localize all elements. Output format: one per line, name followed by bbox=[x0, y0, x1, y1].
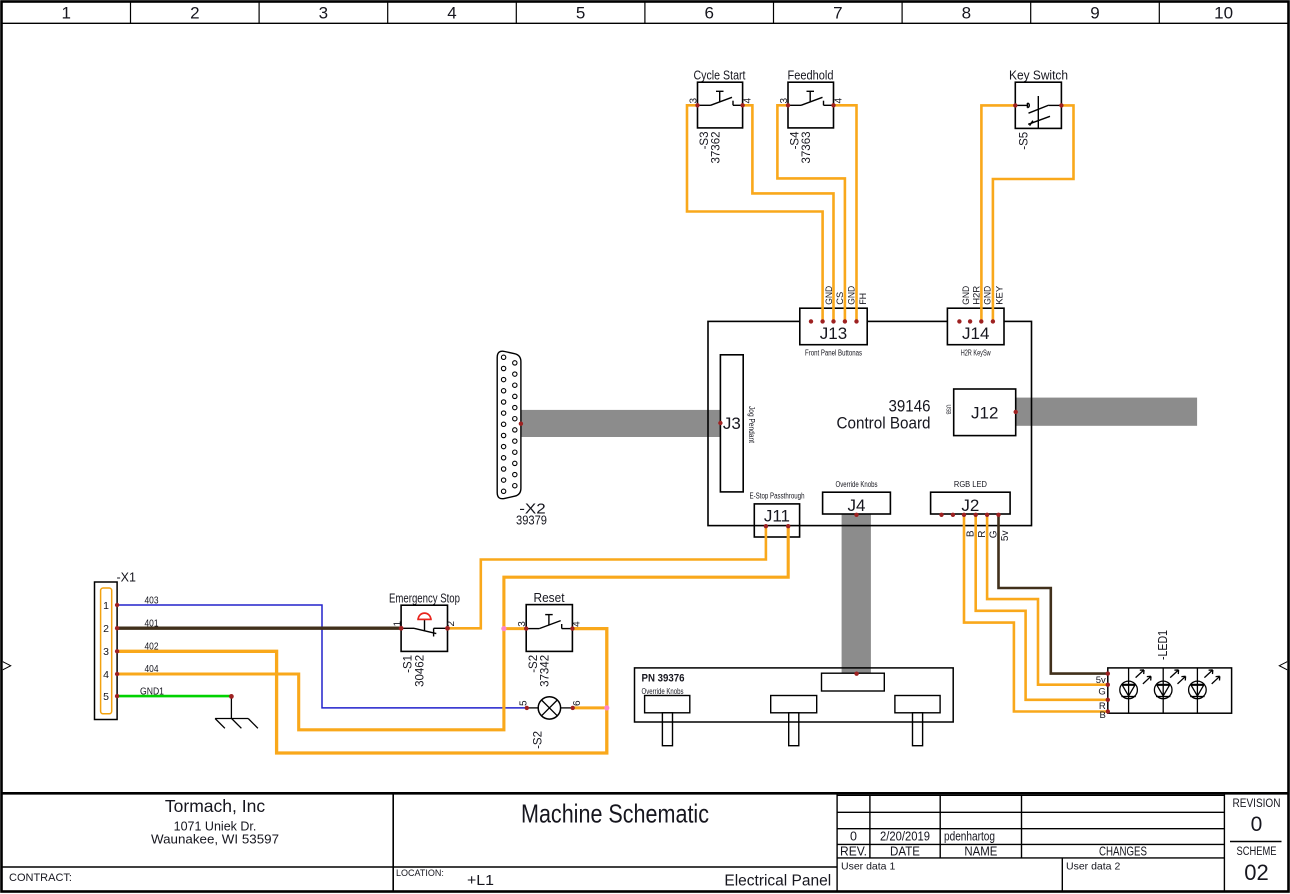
svg-text:3: 3 bbox=[688, 98, 699, 104]
svg-text:R: R bbox=[977, 531, 988, 538]
svg-text:J12: J12 bbox=[971, 404, 998, 423]
svg-text:J13: J13 bbox=[820, 324, 847, 343]
pushbutton S4 Feedhold bbox=[779, 69, 845, 164]
svg-text:J11: J11 bbox=[764, 507, 790, 526]
svg-text:J3: J3 bbox=[723, 414, 741, 433]
svg-text:B: B bbox=[1099, 710, 1105, 721]
wire J2 5v to LED 5v bbox=[999, 515, 1108, 674]
knob 2 stem bbox=[789, 713, 799, 746]
svg-text:0: 0 bbox=[1251, 813, 1263, 836]
wire J2 R to LED R bbox=[976, 515, 1108, 700]
wire S3 pin3 to J13 GND bbox=[687, 105, 823, 321]
svg-text:6: 6 bbox=[572, 700, 583, 706]
lamp S2 bbox=[518, 697, 583, 749]
connector J4 bbox=[823, 492, 891, 514]
svg-text:Cycle Start: Cycle Start bbox=[694, 69, 746, 83]
svg-text:1: 1 bbox=[103, 600, 109, 612]
ribbon cable X2 to J3 bbox=[521, 410, 720, 437]
svg-text:4: 4 bbox=[743, 98, 754, 104]
connector J12 bbox=[954, 389, 1016, 436]
svg-text:4: 4 bbox=[572, 621, 583, 627]
LED assembly -LED1 box bbox=[1108, 668, 1232, 713]
svg-text:-LED1: -LED1 bbox=[1156, 630, 1170, 660]
svg-text:3: 3 bbox=[319, 4, 328, 23]
svg-text:Jog Pendant: Jog Pendant bbox=[747, 406, 756, 444]
connector J11 bbox=[754, 504, 799, 537]
svg-text:SCHEME: SCHEME bbox=[1237, 846, 1277, 858]
svg-text:FH: FH bbox=[858, 293, 869, 305]
svg-text:pdenhartog: pdenhartog bbox=[944, 830, 995, 844]
svg-text:J2: J2 bbox=[961, 496, 979, 515]
svg-text:37342: 37342 bbox=[540, 655, 552, 687]
svg-text:Feedhold: Feedhold bbox=[788, 69, 834, 83]
svg-text:4: 4 bbox=[447, 4, 456, 23]
ribbon cable J12 to right bbox=[1016, 398, 1197, 426]
chassis ground symbol bbox=[215, 696, 258, 728]
DB25 pin holes right column bbox=[513, 361, 517, 488]
wire J2 G to LED G bbox=[987, 515, 1108, 685]
svg-text:37362: 37362 bbox=[711, 132, 723, 164]
wire S5 pin to J14 KEY bbox=[993, 105, 1074, 321]
svg-text:3: 3 bbox=[517, 621, 528, 627]
svg-text:J14: J14 bbox=[962, 324, 989, 343]
svg-text:2: 2 bbox=[446, 621, 457, 627]
revision table lines bbox=[837, 794, 1281, 891]
wire S4 pin4 to J13 FH bbox=[834, 105, 857, 321]
wire lamp pin6 stub to 402 net bbox=[573, 706, 607, 709]
svg-text:Waunakee, WI 53597: Waunakee, WI 53597 bbox=[151, 833, 279, 847]
left edge center arrow bbox=[3, 662, 11, 670]
svg-text:-S4: -S4 bbox=[790, 131, 802, 150]
svg-text:-S1: -S1 bbox=[403, 655, 415, 673]
svg-text:User data 2: User data 2 bbox=[1066, 861, 1120, 873]
pushbutton S2 Reset bbox=[517, 591, 583, 687]
LED D1 bbox=[1120, 668, 1151, 713]
title block contract row line bbox=[2, 866, 837, 868]
junction dot pink lamp pin6 node bbox=[604, 705, 609, 710]
wire J2 B to LED B bbox=[964, 515, 1108, 712]
wire S4 pin3 to J13 GND bbox=[777, 105, 845, 321]
svg-text:REVISION: REVISION bbox=[1233, 798, 1281, 810]
ruler bottom line bbox=[2, 22, 1288, 24]
connector J13 bbox=[800, 308, 867, 345]
wire S3 pin4 to J13 CS bbox=[743, 105, 834, 321]
svg-text:Machine Schematic: Machine Schematic bbox=[521, 799, 709, 829]
svg-text:CS: CS bbox=[835, 292, 846, 305]
svg-text:GND: GND bbox=[846, 286, 857, 305]
ruler column dividers bbox=[131, 2, 1160, 23]
svg-text:Front Panel Buttonas: Front Panel Buttonas bbox=[805, 349, 862, 358]
svg-text:+L1: +L1 bbox=[467, 873, 494, 889]
junction dots dark red bbox=[115, 103, 1110, 714]
svg-text:-X1: -X1 bbox=[117, 571, 137, 585]
connector J14 bbox=[947, 308, 1004, 345]
svg-text:USB: USB bbox=[945, 405, 951, 415]
svg-text:39379: 39379 bbox=[516, 514, 547, 528]
svg-text:-S5: -S5 bbox=[1019, 132, 1031, 150]
svg-text:-S3: -S3 bbox=[699, 132, 711, 150]
override knobs header connector bbox=[822, 673, 885, 691]
wire GND1 green X1.5 to ground bbox=[117, 695, 231, 698]
svg-text:8: 8 bbox=[962, 4, 971, 23]
svg-text:Override Knobs: Override Knobs bbox=[642, 687, 684, 696]
wire 401 brown X1.2 to S1 pin1 bbox=[117, 627, 401, 630]
svg-text:GND: GND bbox=[983, 286, 994, 305]
svg-text:2/20/2019: 2/20/2019 bbox=[880, 830, 930, 844]
svg-text:3: 3 bbox=[103, 646, 109, 658]
title block top line bbox=[2, 792, 1288, 795]
svg-text:6: 6 bbox=[704, 4, 713, 23]
svg-text:1071 Uniek Dr.: 1071 Uniek Dr. bbox=[174, 820, 257, 834]
DB25 pin holes left column bbox=[501, 355, 505, 493]
svg-text:-S2: -S2 bbox=[533, 731, 545, 749]
svg-text:2: 2 bbox=[190, 4, 199, 23]
terminal strip -X1 outline bbox=[95, 582, 118, 720]
knob 1 body bbox=[645, 696, 690, 713]
svg-text:Emergency Stop: Emergency Stop bbox=[389, 591, 460, 605]
wire S5 pin to J14 GND bbox=[981, 105, 1015, 321]
junction dot pink reset pin3 node bbox=[501, 626, 506, 631]
svg-text:E-Stop Passthrough: E-Stop Passthrough bbox=[750, 492, 805, 501]
svg-text:-S2: -S2 bbox=[528, 655, 540, 673]
svg-text:Override Knobs: Override Knobs bbox=[836, 480, 878, 489]
knob 3 stem bbox=[913, 713, 923, 746]
wire 402 X1.3 to lamp/reset net bbox=[117, 629, 607, 753]
pushbutton S3 Cycle Start bbox=[688, 69, 753, 164]
svg-text:G: G bbox=[1098, 687, 1105, 698]
svg-text:3: 3 bbox=[779, 98, 790, 104]
svg-text:4: 4 bbox=[103, 669, 109, 681]
svg-text:G: G bbox=[988, 530, 999, 538]
svg-text:10: 10 bbox=[1214, 4, 1233, 23]
knob 2 body bbox=[771, 696, 817, 713]
svg-text:LOCATION:: LOCATION: bbox=[396, 868, 444, 878]
svg-text:7: 7 bbox=[833, 4, 842, 23]
svg-text:5v: 5v bbox=[1096, 675, 1106, 686]
svg-text:02: 02 bbox=[1244, 860, 1268, 885]
connector J3 bbox=[720, 355, 743, 492]
svg-text:NAME: NAME bbox=[964, 844, 997, 858]
LED D2 bbox=[1154, 668, 1185, 713]
title block vertical divider company/title bbox=[392, 794, 394, 891]
knob 1 stem bbox=[662, 713, 672, 746]
wire reset pin3 stub bbox=[504, 627, 526, 630]
svg-text:Key Switch: Key Switch bbox=[1009, 69, 1068, 83]
svg-text:2: 2 bbox=[103, 623, 109, 635]
svg-text:H2R KeySw: H2R KeySw bbox=[961, 349, 991, 358]
LED D3 bbox=[1189, 668, 1220, 713]
svg-text:Control Board: Control Board bbox=[837, 414, 931, 433]
emergency stop S1 bbox=[389, 591, 460, 687]
ribbon cable J4 to override knobs bbox=[842, 514, 871, 673]
svg-text:1: 1 bbox=[61, 4, 70, 23]
svg-text:REV.: REV. bbox=[840, 844, 867, 858]
svg-text:KEY: KEY bbox=[994, 285, 1005, 305]
svg-text:5v: 5v bbox=[1000, 531, 1011, 542]
svg-text:5: 5 bbox=[576, 4, 585, 23]
connector J2 bbox=[931, 492, 1011, 514]
svg-text:RGB LED: RGB LED bbox=[954, 480, 987, 489]
svg-text:5: 5 bbox=[103, 691, 109, 703]
svg-text:DATE: DATE bbox=[890, 844, 920, 858]
override knobs assembly PN 39376 box bbox=[635, 668, 954, 722]
svg-text:GND: GND bbox=[961, 286, 972, 305]
svg-text:PN 39376: PN 39376 bbox=[642, 673, 685, 685]
svg-text:GND: GND bbox=[824, 286, 835, 305]
svg-text:Reset: Reset bbox=[534, 591, 565, 605]
company name Tormach, Inc bbox=[9, 796, 1281, 890]
svg-text:5: 5 bbox=[518, 700, 529, 706]
DB25 connector -X2 outline bbox=[497, 351, 521, 499]
svg-text:Tormach, Inc: Tormach, Inc bbox=[165, 796, 265, 816]
svg-text:9: 9 bbox=[1090, 4, 1099, 23]
svg-text:H2R: H2R bbox=[972, 286, 983, 305]
terminal strip -X1 inner bar bbox=[101, 588, 112, 714]
svg-text:B: B bbox=[965, 530, 976, 537]
svg-text:CHANGES: CHANGES bbox=[1099, 844, 1147, 858]
svg-text:0: 0 bbox=[850, 830, 857, 844]
svg-text:30462: 30462 bbox=[414, 655, 426, 687]
svg-text:User data 1: User data 1 bbox=[841, 861, 895, 873]
control board 39146 outline bbox=[708, 321, 1032, 525]
wire S1 pin2 to J11 bbox=[448, 526, 766, 628]
svg-text:J4: J4 bbox=[848, 496, 866, 515]
svg-text:4: 4 bbox=[833, 98, 844, 104]
key switch S5 bbox=[1009, 69, 1068, 150]
ruler column numbers bbox=[61, 4, 1233, 23]
wire 404 X1.4 to reset pin3 / J11 bbox=[117, 526, 788, 730]
svg-text:CONTRACT:: CONTRACT: bbox=[9, 872, 72, 884]
svg-text:Electrical Panel: Electrical Panel bbox=[724, 873, 831, 890]
svg-text:37363: 37363 bbox=[801, 132, 813, 164]
wire 403 blue X1.1 to lamp pin5 bbox=[117, 605, 527, 708]
knob 3 body bbox=[895, 696, 940, 713]
right edge center arrow bbox=[1279, 662, 1287, 670]
svg-text:1: 1 bbox=[392, 621, 403, 627]
